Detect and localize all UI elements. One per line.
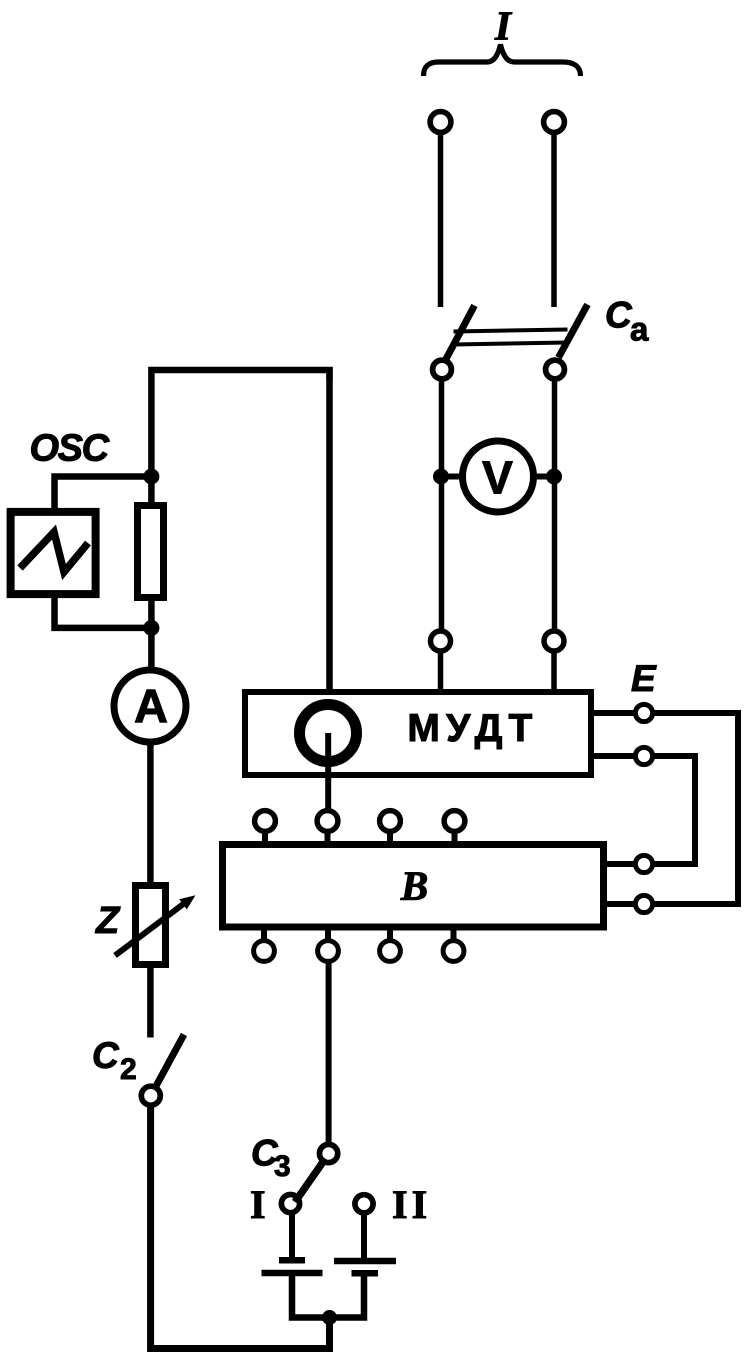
- switch Ca link line lower: [454, 343, 568, 345]
- switch Ca blade right: [559, 305, 588, 358]
- battery I long plate: [262, 1270, 323, 1277]
- wire top-left loop: left vertical, top run, down to MUDT: [151, 370, 329, 477]
- switch C2 circle: [141, 1086, 160, 1105]
- switch Ca circle left: [433, 360, 452, 379]
- stub V left: [441, 474, 462, 480]
- stub right into MUDT: [551, 654, 557, 696]
- wire I to battery: [289, 1212, 295, 1261]
- resistor (divider): [138, 506, 164, 598]
- wire left terminal down: [438, 133, 444, 307]
- E circle 4 (to B lower): [635, 895, 652, 912]
- terminal circle II: [355, 1195, 373, 1213]
- E circle 3 (to B upper): [635, 855, 652, 872]
- switch C3 blade: [295, 1161, 324, 1203]
- junction dot OSC top: [143, 469, 159, 485]
- wire resistor bottom to ammeter: [148, 597, 155, 668]
- svg-text:МУДТ: МУДТ: [407, 707, 538, 750]
- impedance Z box: [136, 886, 166, 965]
- wire Ca right to lower circle: [552, 381, 558, 630]
- wire E1 outer loop: [654, 713, 738, 904]
- sawtooth symbol: [20, 532, 88, 572]
- wire battery II to junction: [330, 1273, 365, 1317]
- svg-text:a: a: [630, 311, 649, 348]
- svg-text:I: I: [250, 1182, 266, 1227]
- B box top terminal circle 4: [444, 811, 465, 832]
- box B: [223, 845, 604, 928]
- switch Ca circle right: [546, 360, 565, 379]
- thick circle in MUDT: [300, 705, 357, 762]
- battery II long plate: [334, 1258, 396, 1265]
- box OSC generator: [11, 512, 96, 594]
- B box top terminal circle 3: [380, 811, 401, 832]
- stub MUDT to E circle 2: [591, 753, 634, 759]
- B box bottom terminal circle 2: [318, 941, 339, 962]
- svg-text:2: 2: [120, 1053, 137, 1086]
- junction dot OSC bottom: [143, 620, 159, 636]
- stub top terminal 1: [262, 832, 268, 846]
- svg-text:OSC: OSC: [30, 428, 110, 470]
- E circle 1: [635, 704, 652, 721]
- stub bottom terminal 1: [261, 927, 267, 940]
- junction dot batteries: [322, 1310, 337, 1325]
- wire II to battery: [361, 1212, 367, 1262]
- switch C3 top circle: [320, 1144, 338, 1162]
- wire OSC bottom branch: [55, 594, 152, 628]
- wire Z to C2: [147, 964, 154, 1038]
- wire ammeter to Z: [147, 744, 154, 886]
- terminal circle I: [281, 1195, 299, 1213]
- stub bottom terminal 4: [451, 927, 457, 940]
- Z arrow head: [179, 895, 195, 909]
- wire battery I to junction: [292, 1273, 330, 1318]
- switch C2 blade: [156, 1035, 185, 1088]
- svg-text:A: A: [134, 680, 168, 733]
- svg-text:C: C: [92, 1035, 120, 1076]
- wire E2 inner loop: [654, 756, 695, 864]
- switch Ca blade left: [446, 306, 475, 360]
- battery I short plate: [279, 1257, 305, 1264]
- B box top terminal circle 2: [317, 811, 338, 832]
- brace over terminals: [424, 45, 581, 77]
- B box bottom terminal circle 1: [254, 941, 275, 962]
- junction dot left of V: [433, 469, 449, 485]
- E circle 2: [635, 747, 652, 764]
- wire B to C3: [326, 962, 332, 1145]
- wire OSC top branch: [55, 477, 152, 513]
- B box top terminal circle 1: [255, 811, 276, 832]
- svg-text:Z: Z: [95, 900, 121, 942]
- Z arrow shaft: [115, 902, 186, 956]
- stub V right: [534, 474, 554, 480]
- svg-text:V: V: [482, 452, 513, 504]
- svg-text:II: II: [392, 1182, 431, 1227]
- voltmeter V: [463, 441, 534, 512]
- wire junction down to bottom rail: [326, 1318, 333, 1346]
- wire resistor top: [148, 477, 155, 507]
- svg-text:C: C: [605, 295, 633, 336]
- switch Ca link line upper: [454, 330, 568, 332]
- stub bottom terminal 2: [325, 927, 331, 940]
- open circle right above MUDT: [544, 631, 564, 651]
- stub bottom terminal 3: [387, 927, 393, 940]
- B box bottom terminal circle 4: [443, 941, 464, 962]
- wire Ca left to lower circle: [439, 381, 445, 630]
- stub top terminal 2: [325, 832, 331, 846]
- open circle left above MUDT: [431, 631, 451, 651]
- wire right terminal down: [551, 133, 557, 307]
- stub top terminal 4: [452, 832, 458, 846]
- B box bottom terminal circle 3: [380, 941, 401, 962]
- battery II short plate: [352, 1270, 379, 1277]
- svg-text:I: I: [494, 3, 513, 49]
- svg-text:E: E: [631, 658, 657, 699]
- stub MUDT to E circle 1: [591, 710, 634, 716]
- terminal circle left top: [430, 112, 451, 133]
- stub top terminal 3: [387, 832, 393, 846]
- stub left into MUDT: [438, 654, 444, 696]
- stub B to E circle 3: [603, 861, 634, 867]
- stub B to E circle 4: [603, 901, 634, 907]
- junction dot right of V: [546, 469, 562, 485]
- box MUDT: [245, 692, 591, 775]
- wire into MUDT from top: [326, 367, 333, 689]
- svg-text:3: 3: [274, 1150, 291, 1183]
- svg-text:B: B: [400, 863, 428, 909]
- wire C2 to bottom rail and up to junction: [151, 1108, 330, 1349]
- ammeter A: [114, 670, 186, 742]
- wire from circle center down to B: [325, 733, 331, 810]
- terminal circle right top: [544, 112, 565, 133]
